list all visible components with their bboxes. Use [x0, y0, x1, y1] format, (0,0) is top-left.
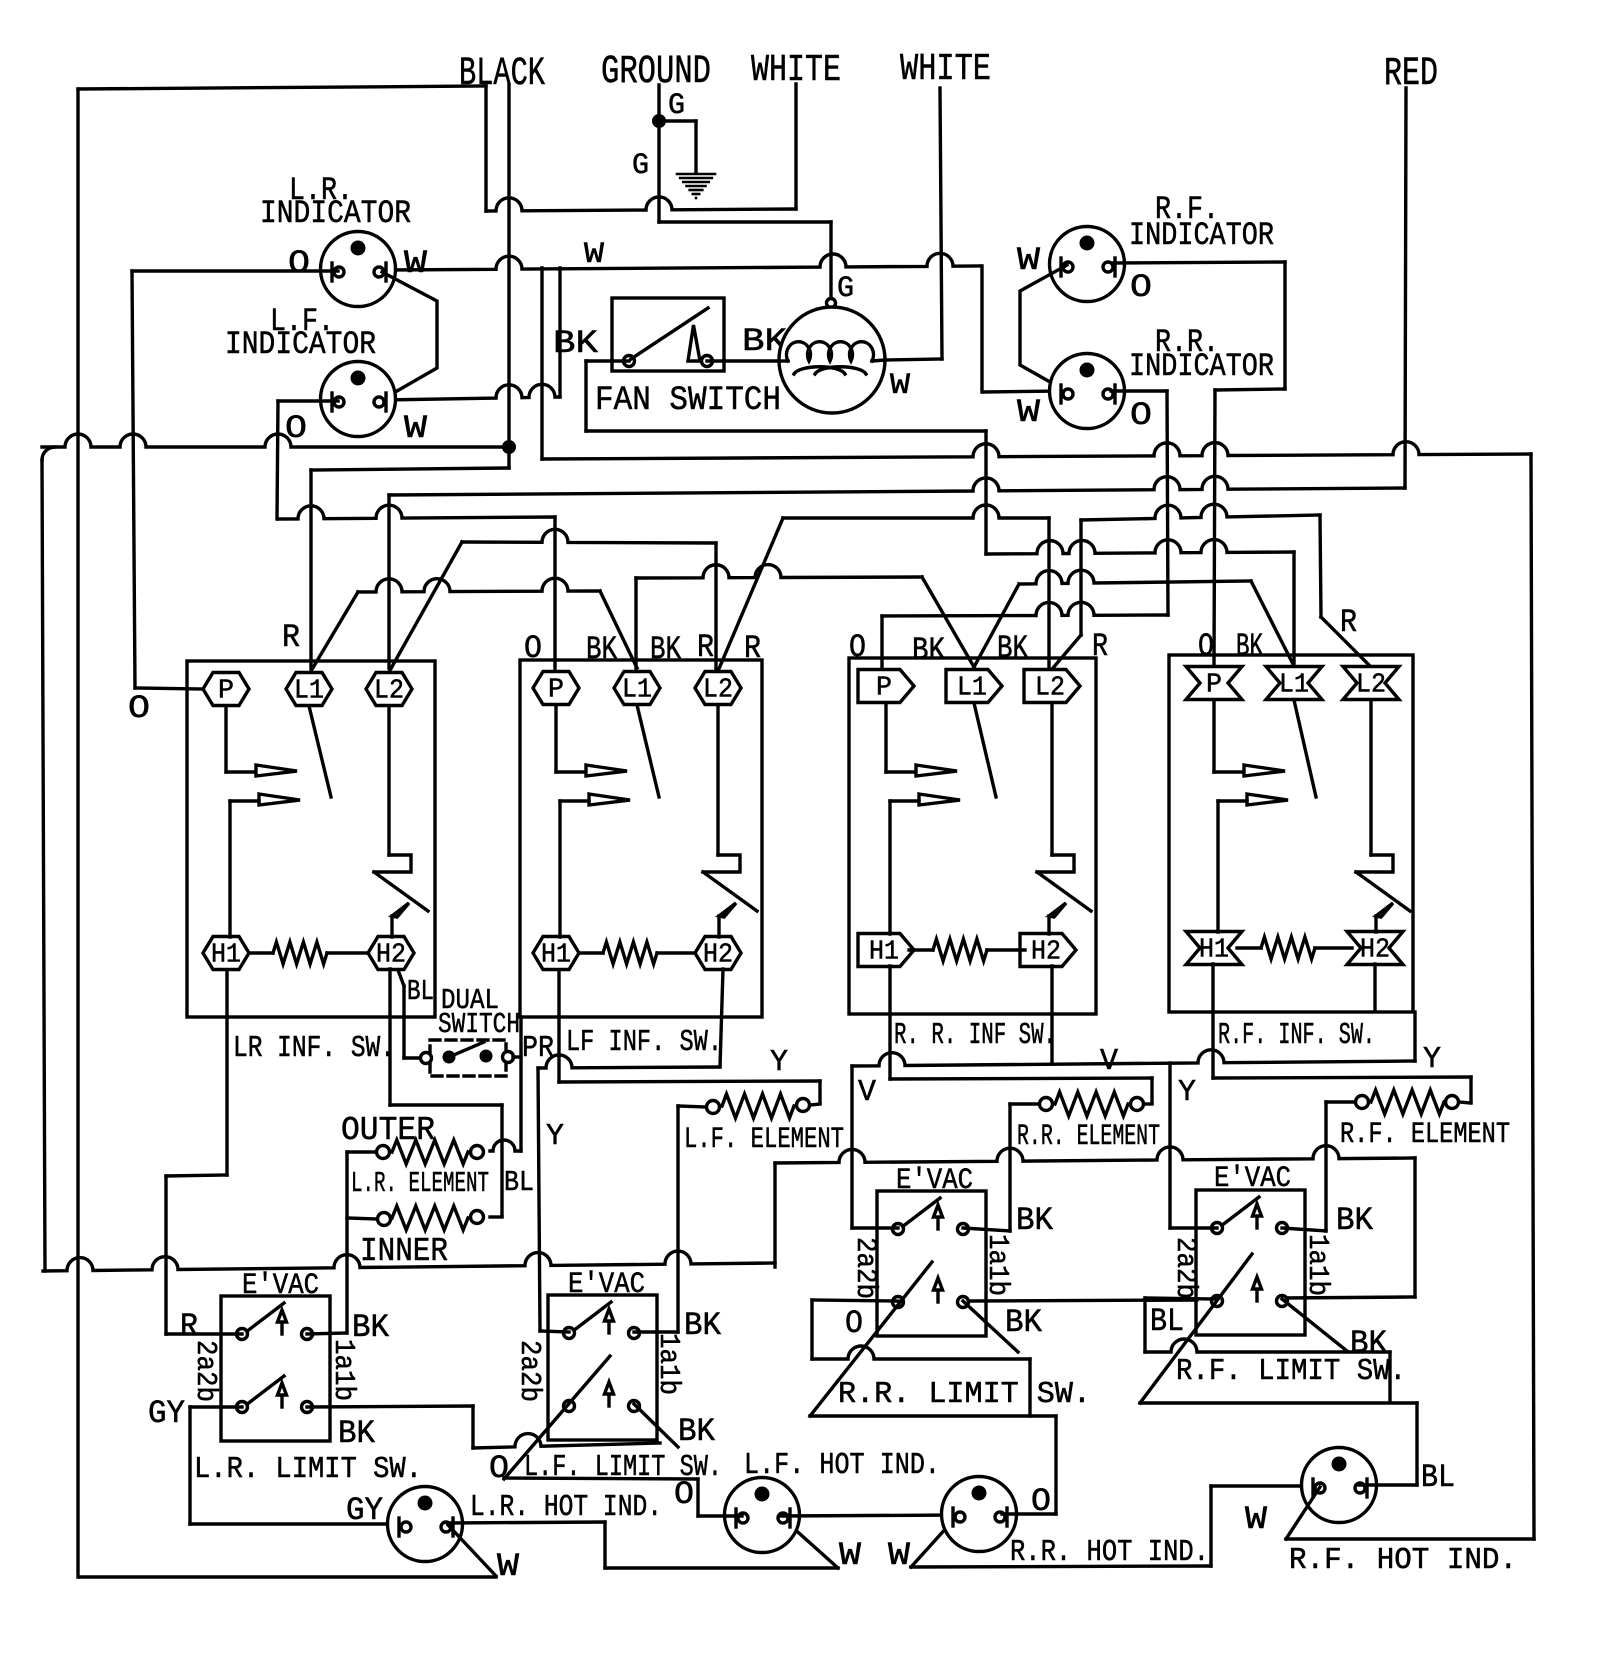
svg-text:L.R. HOT IND.: L.R. HOT IND.	[470, 1490, 662, 1525]
R.R. INDICATOR filament dot	[1080, 363, 1095, 378]
svg-text:BK: BK	[997, 630, 1029, 667]
L.F. HOT indicator filament dot	[755, 1487, 770, 1502]
infinite switch RR arrow2 lead	[890, 799, 919, 802]
wire ground to motor y222	[659, 220, 831, 223]
infinite switch RR heater resistor H1-H2	[933, 939, 987, 961]
L.F. HOT indicator right pin	[788, 1509, 791, 1527]
infinite switch LR box outline	[187, 661, 435, 1017]
wire W drop x982	[980, 266, 983, 392]
wire E'VAC3 bottom to E'VAC4 y1300	[970, 1300, 1197, 1301]
wire W to RR indicator y392	[984, 391, 1066, 392]
wire W riser x1211	[1209, 1486, 1212, 1566]
infinite switch LF terminal H2	[695, 937, 741, 970]
wire BK from E'VAC1 bottom	[307, 1406, 473, 1407]
wire bus drop x1415	[1413, 1158, 1416, 1297]
svg-text:W: W	[1245, 1501, 1268, 1538]
infinite switch RR terminal L1	[946, 670, 1002, 703]
svg-text:L2: L2	[1356, 671, 1386, 701]
E'VAC R.R. upper right contact	[958, 1224, 969, 1235]
wire E'VAC4 to BK drop	[1282, 1228, 1326, 1231]
svg-text:R.F. ELEMENT: R.F. ELEMENT	[1340, 1118, 1510, 1152]
OUTER element right terminal	[471, 1146, 484, 1159]
dual switch left contact	[421, 1053, 432, 1064]
svg-text:SWITCH: SWITCH	[438, 1008, 520, 1041]
wire W net y267	[385, 253, 980, 270]
wire O drop to P box2 x555	[553, 517, 556, 670]
wire W diagonal at R.F. hot ind	[1286, 1487, 1320, 1539]
wire H2-LR diagonal to dual switch	[398, 970, 404, 986]
wire L1 chain diag box1	[311, 592, 358, 671]
wire L1 chain y591	[358, 578, 600, 592]
E'VAC R.R. lower right contact	[958, 1297, 969, 1308]
infinite switch LF L1 blade	[637, 705, 659, 797]
infinite switch RF terminal L1	[1266, 667, 1322, 700]
R.F. INDICATOR right pin	[1113, 258, 1116, 276]
svg-text:O: O	[1130, 269, 1152, 306]
wire to RR element right	[1144, 1102, 1152, 1105]
wire W bus y459-454	[542, 442, 1531, 459]
wire H2-RR drop x1052	[1050, 966, 1053, 1064]
wire RF-O link y389	[1215, 389, 1285, 390]
wire W link y1515	[781, 1515, 958, 1516]
wire BK left-edge drop x42	[42, 460, 45, 1271]
wire Y drop x538	[538, 1068, 540, 1331]
wire BK diagonal E'VAC4 bottom	[1282, 1299, 1347, 1351]
wire H1-RF drop x1213	[1211, 964, 1214, 1078]
diagonal R.R. limit switch actuator	[810, 1262, 932, 1416]
wire L2 chain y542	[462, 529, 716, 543]
E'VAC L.R. lower left contact	[237, 1402, 248, 1413]
infinite switch RR L2 contact step	[1037, 855, 1074, 872]
svg-text:BK: BK	[553, 325, 599, 362]
svg-text:W: W	[404, 410, 428, 447]
wire to INNER right terminal	[490, 1215, 502, 1218]
infinite switch LR H2 arrow	[390, 916, 393, 937]
svg-text:BLACK: BLACK	[459, 52, 545, 97]
wire to earth symbol	[659, 119, 696, 122]
wire stub box4 corner x1415	[1413, 1012, 1416, 1061]
wire L1 chain diag from box3	[974, 584, 1019, 667]
svg-text:1a1b: 1a1b	[981, 1234, 1014, 1296]
svg-text:BK: BK	[338, 1415, 376, 1452]
wire W drop x605	[603, 1522, 606, 1568]
wire W link y1522	[448, 1522, 605, 1523]
infinite switch LF terminal L2	[695, 672, 741, 705]
wire R link y1175	[166, 1175, 227, 1176]
infinite switch LR arrow2 lead	[230, 799, 259, 802]
svg-text:E'VAC: E'VAC	[242, 1269, 319, 1303]
svg-text:L1: L1	[294, 677, 324, 707]
fan motor body	[779, 307, 885, 413]
E'VAC R.F. lower arrow	[1255, 1287, 1258, 1301]
svg-text:W: W	[1017, 242, 1041, 279]
wire O from R.R. hot ind	[1002, 1512, 1056, 1515]
wire GY drop x190	[188, 1407, 191, 1524]
wire O to P box1	[135, 688, 204, 689]
wire RED bus y487	[389, 476, 1405, 495]
infinite switch RR wiper arrow 1	[916, 765, 957, 776]
R.F. element right terminal	[1446, 1096, 1459, 1109]
wire BL link y1105	[390, 1103, 502, 1106]
svg-text:L1: L1	[957, 674, 987, 704]
svg-text:GY: GY	[346, 1492, 383, 1529]
E'VAC R.R. box outline	[877, 1191, 986, 1336]
wire W drop x542	[540, 268, 543, 459]
wire GY from E'VAC1	[190, 1405, 242, 1408]
svg-text:INNER: INNER	[360, 1233, 448, 1270]
wire BL link y1352	[1145, 1339, 1390, 1352]
infinite switch RF box outline	[1169, 655, 1413, 1012]
motor winding	[779, 359, 788, 362]
svg-text:BK: BK	[1016, 1202, 1054, 1239]
svg-text:RED: RED	[1384, 52, 1438, 97]
E'VAC L.R. lower right contact	[302, 1402, 313, 1413]
svg-text:BK: BK	[650, 631, 682, 668]
infinite switch LF heater resistor H1-H2	[603, 942, 657, 964]
svg-text:O: O	[128, 690, 150, 727]
E'VAC L.R. upper right contact	[302, 1329, 313, 1340]
E'VAC L.R. upper blade	[246, 1303, 284, 1332]
E'VAC L.F. upper right contact	[629, 1328, 640, 1339]
infinite switch RR L2 blade	[1037, 872, 1091, 911]
svg-text:R.R. LIMIT SW.: R.R. LIMIT SW.	[838, 1377, 1091, 1412]
svg-text:W: W	[497, 1548, 520, 1585]
E'VAC L.R. box outline	[221, 1296, 330, 1441]
E'VAC L.F. lower arrow	[607, 1392, 610, 1406]
diagonal L.F. limit switch actuator	[504, 1356, 610, 1479]
infinite switch RR box outline	[849, 658, 1096, 1014]
svg-text:BK: BK	[1336, 1202, 1374, 1239]
svg-text:1a1b: 1a1b	[652, 1333, 685, 1395]
L.F. HOT indicator lamp body	[725, 1478, 800, 1553]
svg-text:E'VAC: E'VAC	[568, 1268, 645, 1302]
wire O to P box2 y517	[278, 505, 555, 519]
L.F. INDICATOR filament dot	[351, 371, 366, 386]
infinite switch RR H1 internal lead	[888, 801, 891, 934]
R.F. HOT indicator filament dot	[1332, 1457, 1347, 1472]
E'VAC R.R. lower left contact	[893, 1297, 904, 1308]
infinite switch LR L2 contact step	[374, 855, 411, 872]
E'VAC L.F. lower left contact	[564, 1401, 575, 1412]
wire drop x820	[818, 1081, 821, 1103]
svg-text:R.R. ELEMENT: R.R. ELEMENT	[1017, 1120, 1160, 1154]
infinite switch LR heater resistor H1-H2	[273, 942, 327, 964]
svg-text:INDICATOR: INDICATOR	[1129, 348, 1274, 385]
wire to L1 box1 x311	[309, 470, 312, 668]
E'VAC R.F. upper arrow	[1255, 1214, 1258, 1228]
wire W from LF indicator y399	[383, 384, 560, 400]
infinite switch RR wiper arrow 2	[919, 794, 960, 805]
dual switch blade	[449, 1042, 484, 1057]
svg-text:OUTER: OUTER	[341, 1112, 435, 1149]
svg-text:2a2b: 2a2b	[189, 1340, 222, 1402]
svg-text:2a2b: 2a2b	[849, 1237, 882, 1299]
svg-text:O: O	[1130, 397, 1152, 434]
wire white left-edge drop x78	[76, 89, 79, 1577]
dual switch right contact	[503, 1052, 514, 1063]
svg-text:Y: Y	[546, 1119, 564, 1154]
wire H2-LR drop x390	[388, 969, 391, 1105]
wire W link y1539	[1286, 1537, 1534, 1540]
wire V drop x852	[850, 1066, 853, 1228]
wire RR element left lead	[1010, 1102, 1039, 1105]
svg-text:INDICATOR: INDICATOR	[260, 195, 411, 232]
infinite switch RF terminal H2	[1347, 932, 1403, 965]
infinite switch LF L2 blade	[703, 872, 757, 911]
wire BK drop x986	[984, 431, 987, 554]
wire bus y1157	[775, 1146, 1415, 1163]
L.R. HOT indicator left pin	[397, 1518, 400, 1536]
wire O drop x1168	[1167, 391, 1168, 615]
wire L2 drop box2 x716	[714, 543, 717, 670]
svg-text:V: V	[1100, 1044, 1118, 1079]
infinite switch RR terminal H2	[1020, 934, 1076, 967]
wire bus y1267	[43, 1251, 775, 1271]
R.R. INDICATOR left pin	[1059, 385, 1062, 403]
wire O drop x698	[696, 1479, 699, 1516]
R.F. HOT indicator right pin	[1365, 1479, 1368, 1497]
R.R. HOT indicator filament dot	[972, 1486, 987, 1501]
wire link y1403	[1140, 1401, 1417, 1404]
E'VAC R.R. upper arrow	[936, 1215, 939, 1229]
E'VAC L.F. lower right contact	[629, 1401, 640, 1412]
wire RF-O drop x1285	[1283, 262, 1286, 389]
svg-text:BK: BK	[1236, 628, 1264, 665]
infinite switch LR P internal lead	[224, 706, 227, 772]
infinite switch RR P internal lead	[884, 703, 887, 772]
wire L2 chain y520	[1081, 504, 1320, 520]
svg-text:W: W	[404, 245, 428, 282]
svg-text:W: W	[1017, 394, 1041, 431]
wire O to L.F. hot ind	[698, 1514, 742, 1517]
resistor L.R. ELEMENT INNER	[392, 1206, 468, 1230]
wire BK riser x347	[345, 1152, 348, 1333]
svg-text:O: O	[1198, 628, 1214, 665]
wire link y1416	[810, 1414, 1056, 1417]
junction dot ground	[652, 114, 666, 128]
wire fan switch left lead	[586, 359, 629, 362]
svg-text:O: O	[285, 410, 307, 447]
R.F. element left terminal	[1356, 1096, 1369, 1109]
svg-text:L2: L2	[703, 676, 733, 706]
svg-text:Y: Y	[1423, 1042, 1441, 1077]
svg-text:BL: BL	[1150, 1303, 1184, 1340]
svg-text:2a2b: 2a2b	[1169, 1237, 1202, 1299]
svg-text:H2: H2	[1360, 936, 1390, 966]
svg-text:LR INF. SW.: LR INF. SW.	[233, 1031, 395, 1066]
svg-text:W: W	[890, 369, 910, 403]
wire L1 drop box4 x1294	[1292, 552, 1295, 663]
infinite switch RF L2 blade	[1356, 872, 1410, 911]
svg-text:L.F. ELEMENT: L.F. ELEMENT	[684, 1123, 844, 1157]
infinite switch RF H1 internal lead	[1216, 801, 1219, 932]
infinite switch LF arrow2 lead	[560, 799, 589, 802]
wire BL drop x1145	[1143, 1298, 1146, 1352]
infinite switch RR terminal P	[858, 670, 914, 703]
wire H1-RR drop x890	[888, 966, 891, 1079]
wire E'VAC2 to BK drop	[634, 1330, 678, 1333]
wire BLACK vertical x509	[507, 85, 510, 468]
wire earth drop x696	[694, 121, 697, 172]
svg-text:L.R. ELEMENT: L.R. ELEMENT	[351, 1167, 489, 1200]
svg-text:P: P	[1206, 671, 1222, 701]
wire OUTER left lead	[347, 1150, 376, 1153]
wire drop x473	[471, 1406, 474, 1448]
wire RR-O pin right	[1111, 389, 1167, 392]
wire E'VAC1 to BK riser	[307, 1333, 347, 1334]
svg-text:G: G	[837, 272, 854, 306]
wire LF-O drop x278	[277, 401, 278, 519]
wire H1-LF drop x559	[557, 970, 560, 1082]
svg-text:L.R. LIMIT SW.: L.R. LIMIT SW.	[194, 1452, 422, 1487]
svg-text:WHITE: WHITE	[900, 48, 991, 91]
E'VAC L.R. lower arrow	[280, 1393, 283, 1407]
R.R. HOT indicator lamp body	[942, 1477, 1017, 1552]
infinite switch LR L1 blade	[309, 706, 331, 797]
wire BL from R.F. hot ind	[1359, 1483, 1417, 1486]
E'VAC L.F. box outline	[548, 1295, 657, 1440]
infinite switch RF P internal lead	[1212, 700, 1215, 772]
L.F. element left terminal	[707, 1101, 720, 1114]
svg-text:1a1b: 1a1b	[1301, 1234, 1334, 1296]
ground symbol (earth)	[677, 174, 715, 198]
wire to E'VAC4 contact y1298	[1283, 1297, 1415, 1298]
wire L.R. O pin to left	[132, 269, 338, 272]
wire L1 chain diag to box3	[922, 577, 974, 667]
L.R. HOT indicator lamp body	[388, 1487, 463, 1562]
svg-text:GROUND: GROUND	[601, 50, 711, 95]
infinite switch RR L2 internal lead	[1050, 703, 1053, 855]
svg-text:H2: H2	[1031, 938, 1061, 968]
wire L2 drop box4 x1320	[1320, 515, 1321, 617]
R.F. INDICATOR filament dot	[1080, 236, 1095, 251]
infinite switch RF L2 contact step	[1356, 855, 1393, 872]
wire BK chain y552	[986, 540, 1294, 554]
wire to LF element right	[810, 1104, 820, 1105]
svg-text:O: O	[849, 629, 866, 666]
wire motor W lead	[885, 359, 942, 360]
wire RF element left lead	[1326, 1100, 1355, 1103]
infinite switch LF H2 arrow	[717, 916, 720, 937]
infinite switch LR terminal L1	[286, 673, 332, 706]
wire white drop x486	[484, 86, 487, 211]
motor ground terminal circle	[827, 299, 836, 308]
wire BK link y468	[311, 468, 509, 470]
wire LR-O drop x133	[132, 271, 135, 688]
wire L2 chain y518	[783, 505, 1049, 518]
infinite switch LR H1 internal lead	[228, 801, 231, 937]
R.R. HOT indicator left pin	[951, 1508, 954, 1526]
wire W to R.F. hot ind	[1211, 1484, 1320, 1487]
E'VAC R.F. lower right contact	[1277, 1296, 1288, 1307]
wire O drop x1056	[1054, 1416, 1057, 1514]
wire L2 chain diag box2	[718, 518, 783, 671]
wire RED vertical x1406	[1405, 88, 1406, 488]
infinite switch LF wiper arrow 1	[586, 765, 627, 776]
R.R. INDICATOR right pin	[1113, 385, 1116, 403]
wire O drop x1030	[1028, 1359, 1031, 1416]
infinite switch RF L2 internal lead	[1369, 700, 1372, 855]
infinite switch LF box outline	[520, 660, 762, 1017]
infinite switch LF H1 internal lead	[558, 801, 561, 937]
svg-text:O: O	[489, 1450, 509, 1487]
wire L1 chain y577	[636, 565, 922, 578]
infinite switch RF terminal P	[1186, 667, 1242, 700]
INNER element left terminal	[378, 1213, 391, 1226]
wire link y1448	[473, 1434, 660, 1448]
svg-text:H1: H1	[541, 941, 571, 971]
wire white link y210	[486, 197, 796, 211]
wire H1-LR drop x227	[225, 970, 228, 1175]
E'VAC L.R. upper arrow	[280, 1320, 283, 1334]
wire RF-O pin right y263	[1112, 262, 1285, 263]
wire R to E'VAC1	[166, 1332, 242, 1335]
svg-text:L1: L1	[1279, 671, 1309, 701]
wire E'VAC3 to BK drop	[963, 1228, 1010, 1231]
R.R. element right terminal	[1131, 1098, 1144, 1111]
wire dual right lead	[513, 1055, 521, 1058]
wire dual switch left lead x404	[402, 986, 405, 1058]
infinite switch RR terminal H1	[858, 934, 914, 967]
wire Y link y1082	[559, 1081, 820, 1082]
svg-text:INDICATOR: INDICATOR	[1129, 217, 1274, 254]
wire V to E'VAC3	[852, 1226, 898, 1229]
E'VAC L.R. lower blade	[246, 1376, 284, 1405]
wire PR riser x521	[519, 1017, 522, 1151]
infinite switch RF L1 blade	[1294, 700, 1316, 797]
wire L2 drop box3 x1049	[1047, 518, 1050, 668]
svg-text:BK: BK	[912, 632, 946, 669]
wire O drop x812	[810, 1300, 813, 1359]
L.R. HOT indicator right pin	[451, 1518, 454, 1536]
svg-text:O: O	[845, 1305, 863, 1342]
wire Y link y1079b	[1213, 1077, 1471, 1078]
wire WHITE2 drop x940	[940, 88, 942, 359]
infinite switch RR L1 blade	[974, 703, 996, 797]
wire L2 chain diag box1	[389, 542, 462, 672]
wire to RF element right	[1459, 1102, 1471, 1103]
E'VAC L.F. upper left contact	[564, 1328, 575, 1339]
svg-text:E'VAC: E'VAC	[896, 1164, 973, 1198]
wire WHITE1 lead drop x796	[794, 84, 797, 209]
svg-text:G: G	[668, 89, 685, 123]
infinite switch RF wiper arrow 2	[1247, 794, 1288, 805]
infinite switch RF heater resistor H1-H2	[1261, 937, 1315, 959]
svg-text:L.F. HOT IND.: L.F. HOT IND.	[744, 1448, 940, 1483]
wire BK drop x1010	[1008, 1104, 1011, 1231]
svg-text:H1: H1	[1199, 936, 1229, 966]
wire ground vertical x659	[657, 85, 660, 222]
svg-text:V: V	[858, 1075, 876, 1110]
wire W bottom y1568	[605, 1566, 838, 1569]
L.R. INDICATOR left pin	[330, 263, 333, 281]
svg-text:BL: BL	[504, 1166, 534, 1199]
svg-text:BL: BL	[407, 975, 434, 1008]
fan switch left contact	[624, 356, 635, 367]
wire R drop x166	[164, 1176, 167, 1334]
infinite switch LR terminal H2	[368, 937, 414, 970]
wire fan switch to motor	[707, 359, 779, 362]
wire GY to L.R. hot ind	[190, 1522, 403, 1525]
infinite switch LF terminal P	[533, 672, 579, 705]
L.F. INDICATOR lamp body	[321, 362, 396, 437]
infinite switch RF terminal L2	[1343, 667, 1399, 700]
E'VAC R.R. upper blade	[902, 1198, 940, 1227]
wire INNER left lead	[347, 1218, 377, 1219]
R.F. INDICATOR left pin	[1059, 258, 1062, 276]
wire W zigzag LR to LF	[382, 272, 437, 399]
wire W zigzag RF to RR	[1020, 265, 1067, 391]
